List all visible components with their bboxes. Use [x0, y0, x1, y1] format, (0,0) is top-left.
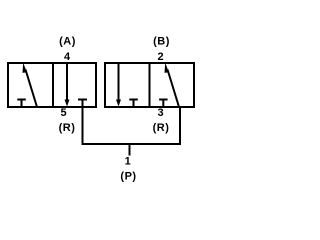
- valve V1 right-position flow arrow 4->5: [65, 63, 70, 107]
- wire from valve V1 port 1 down: [82, 107, 84, 145]
- valve V2 body (B): [105, 62, 194, 108]
- svg-text:2: 2: [157, 51, 163, 63]
- svg-text:4: 4: [64, 51, 71, 63]
- valve V1 left-position blocked port T: [17, 100, 26, 108]
- svg-text:(A): (A): [59, 36, 76, 48]
- svg-text:(P): (P): [120, 171, 136, 183]
- svg-text:(B): (B): [153, 36, 170, 48]
- svg-text:1: 1: [125, 156, 131, 168]
- svg-text:(R): (R): [153, 122, 170, 134]
- svg-text:(R): (R): [59, 122, 76, 134]
- valve V2 left-position flow arrow 2->3: [116, 63, 121, 107]
- wire horizontal supply bus: [82, 143, 182, 145]
- valve V2 right-position flow arrow 1->2: [165, 63, 180, 107]
- wire from valve V2 port 1 down: [179, 107, 181, 145]
- svg-text:5: 5: [60, 107, 66, 119]
- svg-text:3: 3: [157, 107, 163, 119]
- valve V1 right-position blocked port T (port 1): [78, 100, 87, 108]
- valve V2 right-position blocked port T (port 3): [159, 100, 168, 108]
- valve V1 left-position flow arrow 1->4: [23, 63, 38, 107]
- valve V2 left-position blocked port T: [129, 100, 138, 108]
- wire stub to supply port 1 (P): [129, 144, 131, 156]
- valve V1 body (A): [8, 62, 96, 108]
